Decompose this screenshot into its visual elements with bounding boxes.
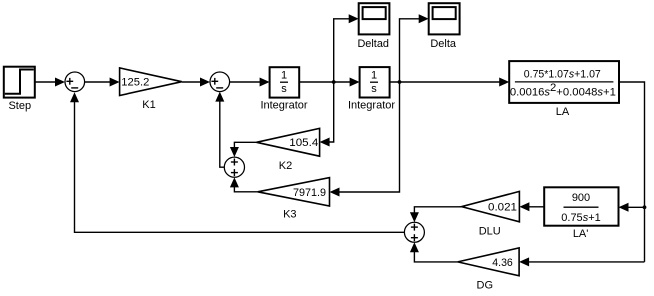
wire J3 to LA' input xyxy=(619,203,645,212)
wire LA' to DLU xyxy=(519,202,544,211)
feedback wire Sum4 to Sum1 bottom xyxy=(70,92,404,232)
svg-text:105.4: 105.4 xyxy=(289,137,318,149)
svg-text:Step: Step xyxy=(8,100,31,112)
sum junction Sum3 xyxy=(224,157,244,177)
integrator block Integrator2 xyxy=(348,67,395,112)
node junction J3 at LA' input branch xyxy=(643,205,647,209)
svg-text:0.021: 0.021 xyxy=(488,202,517,214)
wire Integrator2 to LA xyxy=(390,78,510,87)
wire K3 to Sum3 bottom xyxy=(230,177,258,191)
node junction J2 after Integrator2 xyxy=(398,80,402,84)
sum junction Sum4 xyxy=(404,222,424,242)
svg-text:900: 900 xyxy=(572,192,590,204)
gain K1 value 125.2 xyxy=(120,68,182,111)
svg-text:Integrator: Integrator xyxy=(348,100,395,112)
svg-text:K2: K2 xyxy=(279,160,292,172)
svg-text:K1: K1 xyxy=(142,99,155,111)
wire K2 to Sum3 top xyxy=(230,142,257,157)
svg-text:s: s xyxy=(371,83,377,95)
wire Step to Sum1 xyxy=(35,78,65,87)
sum junction Sum2 xyxy=(210,72,230,92)
svg-text:1: 1 xyxy=(371,69,377,81)
svg-text:0.75s+1: 0.75s+1 xyxy=(561,212,600,224)
svg-text:Delta: Delta xyxy=(430,38,457,50)
wire Sum1 to K1 xyxy=(85,78,120,87)
wire J1 down to K2 xyxy=(320,82,334,147)
svg-text:LA: LA xyxy=(556,106,570,118)
gain DLU value 0.021 xyxy=(462,191,520,237)
transfer function LA xyxy=(509,61,619,118)
scope Deltad xyxy=(357,3,389,50)
transfer function LA' xyxy=(544,187,618,240)
integrator block Integrator1 xyxy=(260,67,307,112)
svg-text:K3: K3 xyxy=(283,209,296,221)
svg-text:4.36: 4.36 xyxy=(492,257,513,269)
wire DG to Sum4 bottom xyxy=(410,242,458,262)
wire J1 up to Deltad scope xyxy=(334,14,359,82)
node junction J1 after Integrator1 xyxy=(332,80,336,84)
scope Delta xyxy=(429,3,460,50)
wire bottom of LA line to DG xyxy=(519,257,644,266)
wire Sum2 to Integrator1 xyxy=(230,78,270,87)
wire Integrator1 to Integrator2 xyxy=(299,78,359,87)
sum junction Sum1 xyxy=(65,72,85,92)
svg-text:Integrator: Integrator xyxy=(260,100,307,112)
svg-text:DG: DG xyxy=(477,279,494,291)
svg-text:1: 1 xyxy=(281,69,287,81)
wire J2 up to Delta scope xyxy=(400,14,429,82)
svg-text:DLU: DLU xyxy=(479,225,501,237)
svg-text:0.75*1.07s+1.07: 0.75*1.07s+1.07 xyxy=(524,69,601,81)
wire LA output down right side xyxy=(619,82,645,262)
wire J2 down to K3 xyxy=(330,82,400,197)
svg-text:125.2: 125.2 xyxy=(121,77,149,89)
gain K3 value 7971.9 xyxy=(258,178,330,221)
svg-text:LA': LA' xyxy=(573,228,589,240)
step source Step xyxy=(4,67,35,112)
wire Sum3 to Sum2 bottom xyxy=(215,92,224,168)
wire K1 to Sum2 xyxy=(182,78,210,87)
svg-text:Deltad: Deltad xyxy=(357,38,389,50)
svg-text:7971.9: 7971.9 xyxy=(293,187,326,199)
svg-text:s: s xyxy=(281,83,287,95)
gain DG value 4.36 xyxy=(458,248,519,291)
wire DLU to Sum4 top xyxy=(410,207,462,223)
gain K2 value 105.4 xyxy=(257,128,320,172)
